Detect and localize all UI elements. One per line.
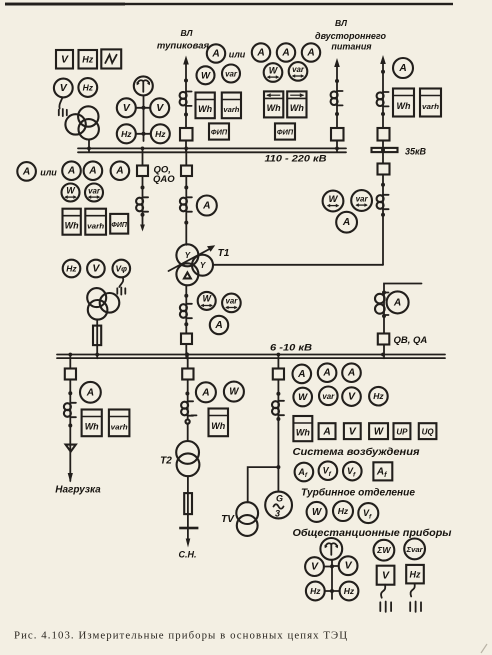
svg-text:A: A (67, 166, 75, 177)
disconnector triangle (66, 445, 76, 452)
transducer ФИП (2) (275, 123, 295, 139)
watt-hour meter Wh (gen) (293, 416, 312, 441)
watt-hour meter Wh (2) (63, 209, 81, 235)
label Система возбуждения (293, 446, 420, 458)
wire elbow QB branch (384, 284, 422, 359)
watt-hour meter Wh (35kV) (393, 89, 414, 117)
svg-text:A: A (347, 368, 355, 379)
svg-text:Wh: Wh (85, 422, 99, 432)
arrowhead up (380, 55, 386, 64)
varmeter var (bidirectional) (85, 184, 103, 202)
ammeter A (35kV) (393, 58, 413, 78)
test loop (186, 420, 190, 424)
label Турбинное отделение (301, 487, 415, 499)
svg-text:A: A (22, 166, 30, 177)
terminal bars (V) (380, 602, 391, 612)
junction (382, 314, 386, 318)
busbar 110-220 kV (78, 148, 346, 152)
label С.Н. (179, 550, 197, 560)
junction (141, 213, 145, 217)
terminal bars (Hz) (410, 602, 421, 612)
voltmeter V (circle) (54, 79, 73, 98)
junction (335, 112, 339, 116)
junction (381, 213, 385, 217)
svg-text:110 - 220 кВ: 110 - 220 кВ (265, 154, 327, 165)
current transformer (377, 92, 389, 106)
caption (14, 630, 347, 642)
voltage transformer (three windings, 6-10) (87, 288, 119, 320)
svg-text:Y: Y (200, 261, 206, 270)
wattmeter W (T1) (198, 292, 216, 310)
circuit breaker (generator) (273, 369, 284, 380)
recording oscillograph (square with zigzag) (101, 49, 121, 68)
voltmeter V (6-10) (87, 260, 105, 278)
junction (185, 392, 189, 396)
label T2 (160, 456, 172, 467)
terminal link V square (381, 585, 385, 598)
svg-text:A: A (393, 297, 401, 308)
svg-text:V: V (348, 391, 356, 403)
varmeter var (with direction arrows) (289, 62, 308, 81)
synchroscope (top) (134, 76, 153, 95)
arrowhead up (183, 56, 189, 65)
disconnect bar (aux) (179, 527, 198, 530)
terminal link from V (59, 97, 62, 108)
svg-text:A: A (306, 48, 314, 59)
wire T2 to aux (187, 476, 189, 540)
watt-hour meter Wh (export) (264, 91, 283, 117)
ammeter A (QB) (387, 291, 409, 313)
svg-text:W: W (229, 387, 239, 398)
svg-text:A: A (281, 48, 289, 59)
voltmeter Vf (turbine) (358, 503, 378, 523)
junction (381, 112, 385, 116)
ammeter Af (square) (373, 462, 392, 480)
label 35кВ (405, 147, 427, 157)
svg-text:Hz: Hz (373, 391, 384, 401)
label QO, (154, 165, 171, 176)
wire bus to T1 (185, 148, 187, 245)
ammeter A1 (252, 43, 270, 61)
current transformer (T2) (181, 401, 193, 415)
generator G (265, 492, 292, 519)
current transformer (180, 92, 192, 106)
transducer ФИП (3) (110, 214, 128, 234)
transformer T2 (two-winding) (176, 441, 199, 476)
svg-text:W: W (202, 294, 212, 304)
terminal bars (2) (117, 288, 125, 295)
ammeter A (T1 LV) (210, 316, 228, 334)
svg-text:Hz: Hz (155, 129, 166, 139)
frequency meter Hz (sync right) (144, 124, 170, 143)
svg-text:Wh: Wh (296, 427, 310, 437)
junction (335, 79, 339, 83)
voltmeter V (common square) (377, 566, 395, 585)
svg-text:Wh: Wh (211, 421, 225, 431)
wire VT to 110-220 bus (88, 140, 90, 153)
disconnect bar 35kV (372, 148, 398, 152)
svg-text:A: A (88, 166, 96, 177)
current transformer (136, 197, 148, 211)
ammeter A (load) (80, 382, 101, 403)
svg-text:T1: T1 (218, 248, 230, 259)
frequency meter Hz (turbine) (333, 501, 353, 521)
label ВЛ (2) (335, 18, 347, 28)
wattmeter W (T2) (224, 382, 244, 402)
terminal link from Vφ (119, 277, 123, 287)
svg-text:Hz: Hz (344, 586, 355, 596)
wire 35kV line upper (382, 62, 384, 148)
svg-text:A: A (322, 426, 330, 437)
ammeter A4 (62, 161, 81, 180)
svg-text:V: V (349, 425, 357, 437)
ammeter A3 (302, 43, 320, 61)
voltmeter V (panel square) (344, 423, 361, 439)
wire sync column (bottom) (331, 560, 333, 599)
frequency meter Hz (6-10) (63, 260, 81, 278)
circuit breaker QB/QA (378, 334, 390, 345)
junction (142, 132, 146, 136)
svg-text:W: W (374, 426, 384, 437)
ammeter A (T1 HV) (197, 196, 217, 216)
svg-text:V: V (382, 569, 390, 581)
circuit breaker (35kV lower) (378, 150, 390, 175)
wire T2 branch (187, 355, 189, 442)
label 6-10кВ (270, 343, 312, 354)
frequency meter Hz (sync bottom left) (306, 582, 332, 601)
synchroscope (bottom) (320, 538, 342, 560)
ammeter A (gen 2) (318, 363, 337, 382)
label Нагрузка (55, 485, 101, 496)
svg-text:Wh: Wh (267, 103, 281, 113)
svg-text:V: V (60, 82, 68, 94)
current transformer (377, 195, 389, 209)
voltmeter V (recording, square) (56, 50, 73, 69)
junction (184, 79, 188, 83)
svg-text:A: A (398, 63, 406, 74)
ammeter A (gen 1) (293, 365, 312, 384)
wire load feeder (69, 355, 71, 482)
junction (68, 391, 72, 395)
current transformer (generator) (272, 401, 284, 415)
wattmeter W (panel square) (369, 423, 388, 439)
junction (382, 291, 386, 295)
svg-text:A: A (202, 201, 210, 212)
junction TV tap (276, 465, 280, 469)
var-hour meter varh (2) (85, 209, 106, 235)
fuse (93, 326, 101, 346)
junction (330, 564, 334, 568)
svg-text:Hz: Hz (66, 264, 77, 274)
svg-text:A: A (201, 387, 209, 398)
svg-text:Wh: Wh (65, 220, 79, 230)
svg-text:тупиковая: тупиковая (157, 41, 210, 52)
terminal link Hz square (411, 583, 415, 596)
wire 35kV down to T1 link (382, 175, 384, 265)
svg-text:QAO: QAO (153, 174, 175, 185)
svg-text:A: A (115, 166, 123, 177)
voltmeter V (sync left) (117, 98, 144, 117)
junction (184, 294, 188, 298)
svg-text:Общестанционные приборы: Общестанционные приборы (293, 527, 452, 539)
svg-text:или: или (40, 168, 57, 178)
transformer T1 (three-winding, regulated) (169, 244, 216, 285)
arrowhead to load (68, 473, 73, 483)
junction (381, 70, 385, 74)
var-hour meter varh (222, 93, 241, 119)
var-hour meter varh (load) (109, 410, 129, 437)
summation varmeter Σvar (404, 539, 425, 560)
junction (68, 424, 72, 428)
svg-text:var: var (356, 194, 369, 203)
terminal bars (59, 109, 67, 116)
svg-text:var: var (225, 297, 238, 306)
circuit breaker (T2) (182, 369, 193, 380)
svg-text:QB, QA: QB, QA (394, 335, 428, 346)
arrowhead up (334, 58, 340, 67)
svg-text:varh: varh (87, 221, 105, 230)
current transformer (180, 304, 192, 318)
voltage transformer TV (236, 502, 258, 536)
svg-text:Wh: Wh (397, 101, 411, 111)
svg-text:W: W (329, 194, 339, 205)
wire T1 tertiary to 35kV branch (213, 264, 383, 266)
current transformer (331, 91, 343, 105)
label или (2) (40, 168, 57, 178)
frequency meter Hz (gen) (369, 387, 388, 406)
wattmeter W (with direction arrows) (264, 63, 283, 82)
var-hour meter varh (35kV) (420, 89, 441, 117)
svg-text:Hz: Hz (83, 83, 94, 93)
junction (276, 392, 280, 396)
svg-text:двустороннего: двустороннего (315, 31, 387, 41)
frequency meter Hz (common square) (406, 565, 424, 584)
svg-text:T2: T2 (160, 456, 172, 467)
svg-text:питания: питания (331, 42, 372, 52)
svg-text:W: W (201, 70, 211, 81)
circuit breaker (load) (65, 369, 76, 380)
transducer UP (square) (394, 423, 411, 439)
svg-text:ВЛ: ВЛ (181, 28, 193, 38)
svg-text:V: V (123, 102, 131, 114)
label тупиковая (157, 41, 210, 52)
svg-text:A: A (342, 217, 350, 228)
watt-hour meter Wh (import) (287, 91, 306, 117)
svg-text:UQ: UQ (422, 427, 435, 436)
label TV (221, 514, 235, 525)
svg-text:Hz: Hz (410, 569, 421, 579)
svg-text:TV: TV (221, 514, 235, 525)
svg-text:A: A (256, 48, 264, 59)
ammeter A6 (111, 161, 130, 180)
ammeter Af (295, 463, 314, 482)
svg-text:Hz: Hz (82, 54, 93, 64)
svg-text:ВЛ: ВЛ (335, 18, 347, 28)
svg-text:С.Н.: С.Н. (179, 550, 197, 560)
junction (276, 417, 280, 421)
wire generator branch (277, 355, 279, 492)
circuit breaker (331, 128, 344, 141)
wire line ВЛ двустороннего (336, 65, 338, 152)
voltmeter Vφ (113, 260, 131, 278)
junction (142, 106, 146, 110)
wattmeter W (35kV) (323, 191, 344, 212)
wire line ВЛ тупиковая (185, 62, 187, 152)
svg-text:Рис. 4.103. Измерительные приб: Рис. 4.103. Измерительные приборы в осно… (14, 630, 347, 642)
junction (141, 186, 145, 190)
svg-text:var: var (225, 70, 238, 79)
svg-text:V: V (61, 53, 69, 65)
ammeter A (panel square) (319, 423, 336, 439)
ammeter A5 (84, 161, 103, 180)
wattmeter W (197, 66, 215, 84)
label или (229, 50, 246, 60)
svg-text:Hz: Hz (338, 506, 349, 516)
voltmeter V (gen) (342, 387, 361, 406)
svg-text:Wh: Wh (290, 103, 304, 113)
voltmeter V (sync right) (144, 98, 170, 117)
svg-text:Vφ: Vφ (116, 265, 128, 274)
voltmeter Vf (1) (319, 461, 338, 480)
svg-text:V: V (311, 561, 319, 573)
watt-hour meter Wh (T2) (209, 409, 229, 437)
svg-text:A: A (297, 369, 305, 380)
bus junction dots 6-10 (68, 352, 385, 356)
svg-text:Система возбуждения: Система возбуждения (293, 446, 420, 458)
svg-text:Hz: Hz (310, 586, 321, 596)
frequency meter Hz (circle) (78, 78, 97, 97)
ammeter A (alt) (207, 44, 225, 62)
svg-text:A: A (322, 368, 330, 379)
svg-text:A: A (214, 320, 222, 331)
junction (184, 113, 188, 117)
wattmeter W (bidirectional) (62, 184, 80, 202)
ammeter A2 (277, 43, 295, 61)
label Общестанционные приборы (293, 527, 452, 539)
voltage transformer (three windings) (65, 106, 99, 139)
svg-text:A: A (86, 387, 94, 398)
svg-text:G: G (276, 494, 283, 504)
frequency meter Hz (recording, square) (79, 50, 98, 69)
ammeter A (gen 3) (342, 363, 361, 382)
voltmeter V (sync bottom right) (332, 556, 358, 575)
svg-text:W: W (298, 392, 308, 403)
arrowhead down (feeder continues) (140, 225, 145, 232)
svg-text:varh: varh (111, 423, 129, 432)
svg-text:ΣW: ΣW (376, 545, 391, 555)
wire sync column (143, 95, 145, 141)
junction (330, 589, 334, 593)
ammeter A (T2) (196, 382, 216, 402)
label QB, QA (394, 335, 428, 346)
current transformer (180, 197, 192, 211)
svg-text:Турбинное отделение: Турбинное отделение (301, 487, 415, 499)
svg-text:V: V (92, 263, 100, 275)
watt-hour meter Wh (load) (82, 410, 102, 437)
frequency meter Hz (sync bottom right) (332, 582, 358, 601)
svg-text:var: var (322, 392, 335, 401)
svg-text:3: 3 (275, 509, 280, 519)
label ВЛ (181, 28, 193, 38)
label 110-220кВ (265, 154, 327, 165)
voltmeter V (sync bottom left) (305, 557, 332, 576)
svg-text:35кВ: 35кВ (405, 147, 427, 157)
busbar 6-10 kV (57, 355, 445, 359)
label двустороннего (315, 31, 387, 41)
svg-text:Hz: Hz (121, 129, 132, 139)
svg-text:Wh: Wh (198, 104, 212, 114)
current transformer (load) (64, 403, 76, 417)
fuse (T2) (184, 493, 192, 514)
circuit breaker (181, 166, 192, 177)
varmeter var (T1) (222, 294, 241, 313)
wire TV tap (248, 467, 279, 502)
summation wattmeter ΣW (374, 540, 395, 561)
polarity tick (192, 414, 197, 416)
arrowhead to С.Н. (186, 539, 191, 548)
svg-text:ФИП: ФИП (277, 128, 294, 137)
svg-text:V: V (156, 102, 164, 114)
varmeter var (35kV) (351, 190, 372, 211)
svg-text:varh: varh (223, 105, 240, 114)
label питания (331, 42, 372, 52)
svg-text:varh: varh (422, 102, 440, 111)
junction (184, 221, 188, 225)
svg-text:ФИП: ФИП (211, 128, 228, 137)
svg-text:A: A (211, 49, 219, 60)
watt-hour meter Wh (196, 93, 215, 119)
svg-text:или: или (229, 50, 246, 60)
svg-text:UP: UP (396, 427, 408, 436)
circuit breaker (35kV upper) (378, 128, 390, 141)
varmeter var (222, 65, 240, 83)
svg-text:Нагрузка: Нагрузка (55, 485, 101, 496)
wattmeter W (gen) (293, 388, 312, 407)
transducer ФИП (209, 123, 229, 139)
circuit breaker (T1 LV) (181, 334, 192, 345)
circuit breaker (180, 128, 193, 141)
svg-text:Σvar: Σvar (406, 545, 424, 554)
junction (381, 183, 385, 187)
svg-text:V: V (345, 560, 353, 572)
frequency meter Hz (sync left) (117, 124, 144, 143)
svg-text:ФИП: ФИП (111, 222, 128, 229)
current transformer (QB) (375, 293, 389, 316)
svg-text:var: var (88, 186, 101, 195)
varmeter var (gen) (319, 387, 338, 406)
wattmeter W (turbine) (307, 502, 327, 522)
wire VT to 6-10 bus (96, 319, 98, 358)
ammeter A (alt, bus feeders) (17, 162, 36, 181)
junction (184, 186, 188, 190)
wire QO feeder (142, 148, 144, 229)
svg-text:W: W (312, 507, 322, 518)
label T1 (218, 248, 230, 259)
circuit breaker QO/QAO (137, 166, 148, 177)
label QAO (153, 174, 175, 185)
bus junction dots 110-220 (87, 147, 339, 151)
svg-text:6 -10 кВ: 6 -10 кВ (270, 343, 312, 354)
svg-text:var: var (292, 65, 305, 74)
junction (184, 322, 188, 326)
wire T1 LV down (185, 285, 187, 358)
ammeter A (35kV line) (336, 212, 357, 233)
transducer UQ (square) (419, 423, 437, 439)
voltmeter Vf (2) (343, 462, 362, 481)
